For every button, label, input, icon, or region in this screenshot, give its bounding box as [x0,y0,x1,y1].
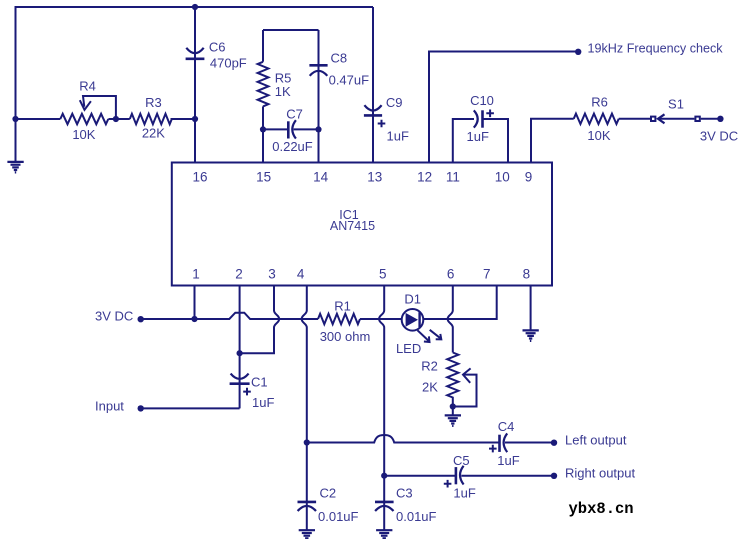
node 19kHz terminal [575,49,581,55]
wire pin 4 line with S-jog [302,286,307,503]
wire pin 5 line with S-jog [379,286,384,503]
svg-text:1uF: 1uF [252,395,274,410]
svg-text:8: 8 [523,267,531,282]
wire R6 to S1 [619,118,650,120]
svg-text:S1: S1 [668,97,684,112]
svg-text:3: 3 [268,267,276,282]
capacitor C1 (vertical, below pins 2-3) [239,353,241,408]
svg-text:16: 16 [192,169,207,184]
svg-text:11: 11 [446,169,460,184]
node pin 1 / 3V rail [191,316,197,322]
node Input terminal [138,405,144,411]
node C7 left (pin 15) [260,126,266,132]
wire pin 9 to R6 [531,119,574,163]
capacitor C5 (horizontal) [455,467,458,484]
svg-text:300 ohm: 300 ohm [320,329,371,344]
svg-text:3V DC: 3V DC [95,308,133,323]
svg-text:R2: R2 [421,359,438,374]
svg-text:6: 6 [447,267,455,282]
node 3V DC left terminal [138,316,144,322]
svg-text:9: 9 [525,169,533,184]
node left rail / R4 [12,116,18,122]
svg-text:15: 15 [256,169,271,184]
svg-text:R3: R3 [145,95,162,110]
svg-text:470pF: 470pF [210,56,247,71]
capacitor C3 (vertical, below pin 5) [375,501,394,504]
wire D1 to pin 7 [423,286,496,320]
capacitor C2 (vertical, below pin 4) [298,501,317,504]
switch S1 [651,117,655,121]
svg-text:13: 13 [367,169,382,184]
svg-text:LED: LED [396,341,421,356]
wire left output with hop over pin 5 line [307,435,500,443]
op-amp IC1 AN7415 box [172,163,552,286]
svg-text:2: 2 [235,267,243,282]
svg-text:22K: 22K [142,125,165,140]
wire pin 6 line with S-jog [448,286,453,353]
svg-text:10: 10 [495,169,510,184]
node R2 bottom junction [450,403,456,409]
resistor R1 [318,314,360,324]
svg-text:Right output: Right output [565,465,635,480]
wire pin 12 to 19kHz check [429,52,576,163]
svg-text:C2: C2 [320,486,337,501]
resistor R4 (potentiometer body) [60,114,108,124]
svg-text:12: 12 [417,169,432,184]
wire pin 15 stub [262,129,264,162]
ground (below R2) [445,415,461,426]
svg-text:0.01uF: 0.01uF [396,509,437,524]
ground (below C3) [376,530,392,538]
svg-text:1K: 1K [275,84,291,99]
svg-text:C8: C8 [331,50,348,65]
svg-text:1uF: 1uF [387,128,409,143]
svg-text:R6: R6 [591,95,608,110]
node Right output terminal [551,473,557,479]
ground (below pin 8) [523,330,539,341]
svg-text:3V DC: 3V DC [700,129,738,144]
svg-text:Left output: Left output [565,432,627,447]
svg-text:Input: Input [95,398,124,413]
svg-text:10K: 10K [587,128,610,143]
svg-text:0.47uF: 0.47uF [329,73,370,88]
resistor R2 (vertical) [447,353,458,407]
wire right output [384,475,456,477]
R4 wiper arrow [83,96,116,119]
wire R1 to D1 [360,318,402,320]
C10 plus sign [486,110,494,118]
svg-text:14: 14 [313,169,329,184]
wire pin 3 line with S-jog [242,286,279,354]
resistor R5 (vertical) [262,30,264,129]
node R3 / pin16 branch [192,116,198,122]
svg-text:C9: C9 [386,95,403,110]
resistor R6 [574,114,619,124]
capacitor C8 [318,30,320,129]
ground (left rail) [7,162,23,173]
wire R5/C8 top rail [263,29,319,31]
svg-text:ybx8.cn: ybx8.cn [569,500,634,518]
svg-text:19kHz Frequency check: 19kHz Frequency check [588,42,724,56]
svg-text:7: 7 [483,267,491,282]
svg-text:2K: 2K [422,380,438,395]
wire R4 row horizontal [16,118,196,120]
wire pin 8 to ground [530,286,532,331]
node R4/R3 junction [113,116,119,122]
C1 plus sign [243,388,251,396]
wire top rail [16,6,374,8]
node pin2/pin3 junction [237,350,243,356]
R2 wiper arrow [455,375,477,407]
node Left output terminal [551,440,557,446]
wire C6 branch vertical (top to pin 16) [194,7,196,163]
wire pin 14 stub [318,129,320,162]
svg-text:AN7415: AN7415 [330,219,375,233]
svg-text:1uF: 1uF [466,129,488,144]
C9 plus sign [378,120,386,128]
svg-text:C5: C5 [453,453,470,468]
capacitor C10 (horizontal, pins 11-10) [453,119,508,163]
capacitor C9 (vertical, on pin 13 branch) [372,7,374,163]
svg-text:0.01uF: 0.01uF [318,509,359,524]
ground (below C2) [299,530,315,538]
svg-text:C3: C3 [396,486,413,501]
svg-text:C4: C4 [498,419,515,434]
capacitor C4 (horizontal) [498,435,501,452]
svg-text:C6: C6 [209,40,226,55]
wire Input to C1 [142,407,240,409]
node left output junction on pin 4 line [304,439,310,445]
svg-text:R4: R4 [79,79,96,94]
node 3V DC right terminal [717,116,723,122]
node top junction at C6 branch [192,4,198,10]
svg-text:1: 1 [192,267,200,282]
svg-text:1uF: 1uF [497,453,519,468]
wire pin 2 line [239,286,241,354]
wire pin 1 stub [194,286,196,320]
svg-text:5: 5 [379,267,387,282]
capacitor C7 (horizontal) [263,128,319,130]
D1 light arrows [418,330,430,342]
svg-text:0.22uF: 0.22uF [272,139,313,154]
wire 3V DC rail with hop over pin 2 [142,313,319,319]
svg-text:4: 4 [297,267,305,282]
node C7 right (pin 14) [315,126,321,132]
C4 plus sign [489,445,497,453]
node right output junction on pin 5 line [381,473,387,479]
svg-text:D1: D1 [404,292,421,307]
capacitor C6 [186,48,203,53]
svg-text:10K: 10K [72,127,95,142]
svg-text:C10: C10 [470,93,494,108]
LED D1 [402,309,424,331]
pin numbers bottom row [192,267,530,282]
pin numbers top row [192,169,532,184]
svg-text:C7: C7 [286,106,303,121]
svg-text:C1: C1 [251,374,268,389]
wire R2 to ground [452,407,454,416]
svg-text:1uF: 1uF [453,485,475,500]
resistor R3 [130,114,172,124]
svg-text:R1: R1 [334,299,351,314]
C5 plus sign [444,480,452,488]
wire left rail [15,6,17,162]
